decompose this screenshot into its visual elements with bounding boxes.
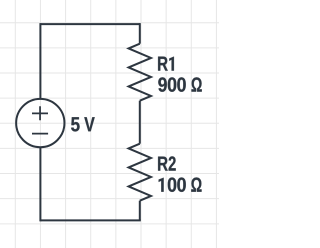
label 900 Ω value [158, 77, 201, 91]
label R1 [158, 57, 174, 71]
voltage source V1 circle [16, 99, 64, 147]
label 100 Ω value [159, 177, 202, 191]
wire top: from left branch to right branch [40, 23, 139, 25]
wire middle right between R1 and R2 [139, 101, 141, 144]
plus symbol [32, 106, 48, 120]
wire left bottom: battery minus to bottom rail [39, 147, 41, 221]
minus symbol [32, 133, 48, 135]
label R2 [158, 156, 176, 170]
resistor R2 [129, 144, 151, 201]
wire bottom [40, 219, 140, 221]
wire left top: top rail to battery plus [39, 23, 41, 99]
wire right bottom lead [139, 201, 141, 221]
label 5 V [71, 117, 95, 131]
wire right top lead [139, 23, 141, 44]
resistor R1 [129, 44, 151, 101]
